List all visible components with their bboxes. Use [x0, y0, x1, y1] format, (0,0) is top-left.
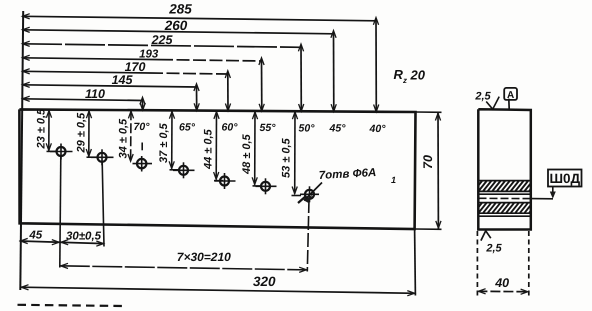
- svg-text:2,5: 2,5: [485, 243, 502, 255]
- svg-text:7отв Ф6А: 7отв Ф6А: [319, 167, 377, 182]
- svg-text:R: R: [394, 67, 404, 82]
- hole 1 extension line: [60, 156, 61, 268]
- angle label 70°: [134, 121, 151, 133]
- svg-text:29 ± 0,5: 29 ± 0,5: [76, 112, 88, 154]
- svg-text:70°: 70°: [134, 121, 151, 133]
- roughness label Rz20: [394, 67, 426, 85]
- svg-text:7×30=210: 7×30=210: [177, 250, 231, 264]
- label 2,5 (top): [474, 91, 499, 110]
- svg-text:37 ± 0,5: 37 ± 0,5: [158, 122, 170, 163]
- dimension 40: [477, 276, 528, 295]
- depth dimension 23±0,5: [36, 108, 57, 151]
- svg-text:34 ± 0,5: 34 ± 0,5: [118, 118, 130, 159]
- dimension 285: [22, 2, 379, 112]
- svg-text:44 ± 0,5: 44 ± 0,5: [203, 128, 215, 170]
- dimension 170: [22, 60, 231, 111]
- datum flag A: [504, 88, 517, 109]
- dimension 145: [22, 73, 199, 111]
- svg-text:40: 40: [494, 276, 509, 290]
- hole 1: [50, 144, 73, 160]
- svg-text:65°: 65°: [179, 121, 196, 133]
- svg-text:48 ± 0,5: 48 ± 0,5: [241, 133, 253, 175]
- svg-text:145: 145: [112, 73, 134, 87]
- svg-text:170: 170: [125, 60, 146, 74]
- dimension 193: [22, 49, 264, 112]
- svg-text:285: 285: [168, 2, 192, 17]
- svg-text:1: 1: [391, 175, 396, 185]
- dimension 30±0,5: [66, 231, 102, 243]
- svg-text:320: 320: [253, 274, 276, 289]
- depth dimension 29±0,5: [76, 110, 98, 157]
- angle label 50°: [299, 123, 316, 135]
- front view body outline: [19, 109, 415, 229]
- depth dimension 34±0,5: [118, 110, 134, 161]
- hatch band 2: [474, 203, 531, 214]
- dimension 70 (right side of front view): [415, 112, 442, 229]
- svg-text:70: 70: [421, 155, 435, 169]
- angle label 60°: [222, 122, 239, 134]
- svg-text:193: 193: [139, 49, 159, 61]
- hole 7 extension line: [307, 199, 309, 272]
- right edge extension line: [414, 229, 417, 296]
- svg-text:45°: 45°: [329, 123, 347, 135]
- hole 7: [300, 186, 319, 202]
- angle label 45°: [329, 123, 347, 135]
- svg-text:260: 260: [164, 18, 188, 33]
- hole 5: [215, 173, 236, 189]
- hole 2: [91, 149, 114, 165]
- dashed break line (bottom left): [18, 305, 123, 306]
- hole 3: [133, 143, 153, 172]
- svg-text:z: z: [402, 76, 407, 85]
- inner line below band 2: [478, 215, 531, 217]
- svg-text:30±0,5: 30±0,5: [66, 231, 102, 243]
- svg-text:225: 225: [151, 33, 174, 47]
- left extension line / body left edge: [20, 11, 23, 290]
- depth dimension 53±0,5: [281, 111, 302, 196]
- hole 6: [256, 178, 277, 194]
- dimension 320: [20, 274, 415, 296]
- angle label 40°: [369, 123, 387, 135]
- svg-text:110: 110: [85, 87, 105, 101]
- svg-text:45: 45: [28, 229, 42, 241]
- depth dimension 48±0,5: [241, 111, 262, 186]
- depth dimension 37±0,5: [158, 111, 179, 170]
- hole 2 extension line: [102, 162, 104, 247]
- hole 4: [173, 162, 195, 178]
- hole callout 7 отв Ф6А: [298, 167, 396, 203]
- svg-text:55°: 55°: [260, 122, 277, 134]
- dimension 225: [22, 33, 304, 111]
- svg-text:50°: 50°: [299, 123, 316, 135]
- dimension 7x30=210: [60, 250, 307, 273]
- svg-text:Ш0Д: Ш0Д: [549, 171, 580, 186]
- dimension 110: [22, 87, 145, 110]
- hatch band 1: [474, 181, 531, 192]
- angle label 55°: [260, 122, 277, 134]
- svg-text:40°: 40°: [369, 123, 387, 135]
- side view outline: [478, 109, 531, 229]
- svg-text:23 ± 0,5: 23 ± 0,5: [36, 108, 48, 150]
- angle label 65°: [179, 121, 196, 133]
- svg-text:60°: 60°: [222, 122, 239, 134]
- svg-text:53 ± 0,5: 53 ± 0,5: [281, 137, 293, 178]
- depth dimension 44±0,5: [203, 111, 224, 181]
- svg-text:2,5: 2,5: [474, 91, 491, 103]
- surface finish flag ШОД: [479, 170, 582, 199]
- label 2,5 (bottom): [481, 231, 503, 255]
- side view dashed extension lines: [477, 231, 528, 296]
- svg-text:20: 20: [410, 68, 426, 83]
- inner line below band 1: [478, 193, 531, 195]
- dimension 45: [20, 229, 105, 246]
- dimension 260: [22, 18, 336, 111]
